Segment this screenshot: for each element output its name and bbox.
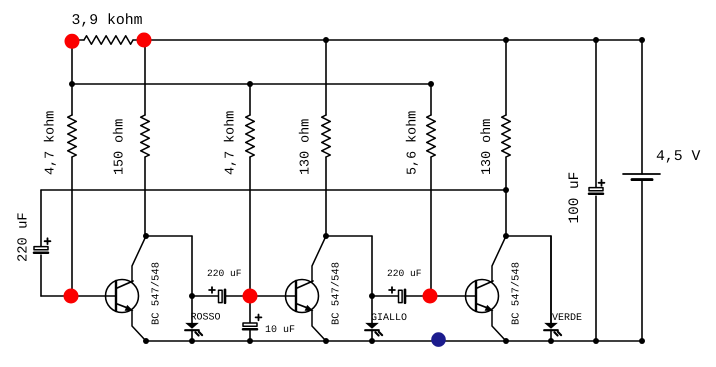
svg-text:100 uF: 100 uF	[567, 172, 583, 224]
svg-text:10 uF: 10 uF	[265, 325, 295, 336]
svg-text:BC 547/548: BC 547/548	[331, 262, 343, 325]
svg-text:BC 547/548: BC 547/548	[151, 262, 163, 325]
svg-text:220 uF: 220 uF	[207, 268, 242, 279]
svg-text:150 ohm: 150 ohm	[113, 119, 128, 175]
svg-text:5,6 kohm: 5,6 kohm	[406, 111, 421, 175]
svg-text:3,9 kohm: 3,9 kohm	[72, 13, 143, 29]
svg-text:BC 547/548: BC 547/548	[511, 262, 523, 325]
svg-text:4,5 V: 4,5 V	[656, 149, 701, 165]
svg-text:VERDE: VERDE	[552, 313, 582, 324]
svg-text:4,7 kohm: 4,7 kohm	[224, 111, 239, 175]
svg-text:GIALLO: GIALLO	[371, 313, 407, 324]
svg-text:220 uF: 220 uF	[387, 268, 422, 279]
svg-text:220 uF: 220 uF	[17, 212, 32, 262]
svg-text:ROSSO: ROSSO	[191, 313, 221, 324]
svg-text:130 ohm: 130 ohm	[480, 119, 495, 175]
svg-text:130 ohm: 130 ohm	[299, 119, 314, 175]
svg-text:4,7 kohm: 4,7 kohm	[44, 111, 59, 175]
